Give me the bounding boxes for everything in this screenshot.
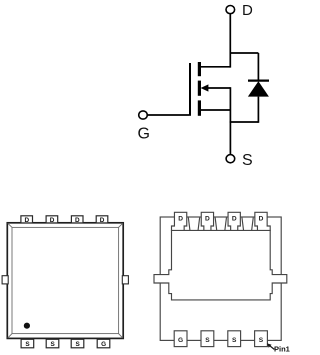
svg-text:D: D (232, 215, 237, 222)
svg-text:G: G (178, 337, 183, 344)
svg-text:G: G (101, 341, 106, 348)
svg-text:S: S (50, 341, 55, 348)
svg-text:Pin1: Pin1 (274, 345, 290, 354)
svg-text:S: S (205, 337, 210, 344)
svg-text:D: D (50, 217, 55, 224)
svg-text:D: D (178, 215, 183, 222)
svg-text:S: S (75, 341, 80, 348)
svg-text:D: D (75, 217, 80, 224)
svg-text:G: G (138, 126, 150, 143)
svg-text:D: D (100, 217, 105, 224)
svg-text:D: D (205, 215, 210, 222)
svg-text:S: S (259, 337, 264, 344)
svg-text:D: D (24, 217, 29, 224)
svg-text:S: S (25, 341, 30, 348)
svg-text:S: S (242, 152, 253, 169)
svg-text:D: D (242, 2, 253, 19)
svg-text:D: D (259, 215, 264, 222)
svg-text:S: S (232, 337, 237, 344)
